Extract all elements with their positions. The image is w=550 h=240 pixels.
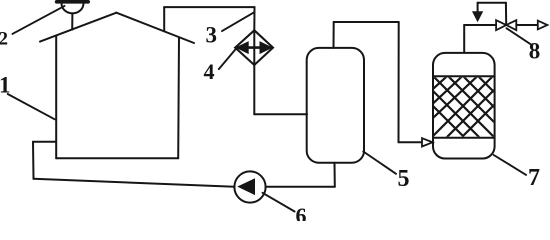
valve outlet line xyxy=(516,24,538,26)
svg-text:5: 5 xyxy=(398,166,410,192)
absorber 7 shell xyxy=(433,53,495,159)
overhead gas line to valve xyxy=(464,24,496,26)
overhead line horizontal xyxy=(334,21,399,23)
pump 6 casing xyxy=(234,171,265,202)
flame arrester 4 diamond xyxy=(235,30,273,65)
svg-text:4: 4 xyxy=(204,59,215,84)
pump 6 impeller arrow xyxy=(239,179,255,194)
vent 2 stem xyxy=(71,13,73,29)
suction line to pump xyxy=(34,179,235,187)
leader to label 2 xyxy=(12,6,64,34)
tank T1 left wall xyxy=(55,36,57,159)
leader to label 3 xyxy=(222,12,254,31)
svg-text:6: 6 xyxy=(296,203,307,221)
pipe arrester to drum xyxy=(253,65,255,114)
packing top line xyxy=(433,75,495,77)
vent 2 dome xyxy=(62,3,84,13)
drum 5 bottom nozzle xyxy=(334,163,336,187)
valve 8 left triangle xyxy=(496,20,506,30)
leader to label 5 xyxy=(363,152,396,174)
tank outlet drop xyxy=(32,142,35,179)
feed arrowhead (open) xyxy=(422,138,433,146)
feed line into absorber xyxy=(399,141,422,143)
flame arrester 4 left arrowhead xyxy=(237,42,249,53)
leader to label 7 xyxy=(494,155,526,175)
svg-text:7: 7 xyxy=(528,165,540,191)
packing bottom line xyxy=(433,137,495,139)
flame arrester 4 center pipe xyxy=(253,30,255,65)
flame arrester 4 arrow shaft xyxy=(241,46,267,49)
tank roof right slope xyxy=(116,13,194,43)
leader to label 8 xyxy=(507,28,532,45)
tank T1 bottom xyxy=(56,157,178,159)
drum 5 vessel xyxy=(307,48,364,163)
pump discharge line xyxy=(266,186,335,188)
drum 5 top nozzle xyxy=(333,22,335,48)
leader to label 1 xyxy=(8,94,55,119)
recycle loop top line xyxy=(478,2,506,4)
overhead line drop xyxy=(398,22,400,142)
vent 2 cap bar xyxy=(57,0,89,4)
svg-text:2: 2 xyxy=(0,28,8,49)
absorber riser xyxy=(463,25,465,53)
pipe elbow into drum 5 xyxy=(254,113,307,115)
recycle loop left drop xyxy=(477,3,479,12)
vapor top header (line 3) xyxy=(164,6,254,8)
recycle down arrowhead (solid) xyxy=(473,12,483,21)
drop pipe to arrester xyxy=(253,7,255,30)
recycle loop right drop xyxy=(505,3,507,24)
flame arrester 4 right arrowhead xyxy=(260,42,272,53)
outlet open arrowhead xyxy=(538,21,548,30)
tank roof left slope xyxy=(40,13,116,42)
svg-text:8: 8 xyxy=(529,39,541,64)
tank T1 right wall xyxy=(177,37,180,158)
vapor riser from roof xyxy=(163,7,165,31)
packing crosshatch xyxy=(413,69,512,137)
valve 8 right triangle xyxy=(506,20,516,30)
svg-text:1: 1 xyxy=(0,73,11,98)
svg-text:3: 3 xyxy=(206,22,218,47)
leader to label 6 xyxy=(263,193,295,212)
tank outlet horizontal xyxy=(33,141,56,143)
leader to label 4 xyxy=(219,49,236,70)
